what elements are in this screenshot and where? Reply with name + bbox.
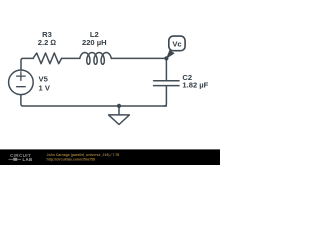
svg-text:220 µH: 220 µH [82, 38, 107, 47]
svg-text:LAB: LAB [23, 157, 33, 162]
svg-text:Vc: Vc [172, 39, 181, 48]
svg-text:1.82 µF: 1.82 µF [182, 81, 208, 90]
svg-text:2.2 Ω: 2.2 Ω [38, 38, 57, 47]
svg-text:V5: V5 [39, 75, 49, 84]
svg-text:John Carnage (parallel_univers: John Carnage (parallel_universe_219) / 7… [47, 153, 120, 157]
svg-text:1 V: 1 V [39, 83, 51, 92]
svg-text:http://circuitlab.com/c/5ra758: http://circuitlab.com/c/5ra758 [47, 158, 95, 162]
